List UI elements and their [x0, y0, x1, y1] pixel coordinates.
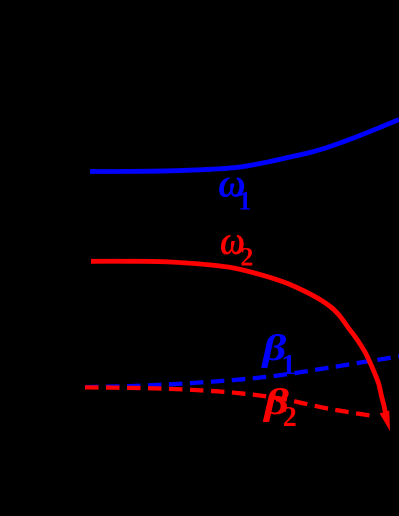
- svg-text:1: 1: [281, 349, 296, 381]
- svg-text:2: 2: [240, 242, 253, 271]
- curve omega2 (red solid lower frequency branch): [91, 261, 385, 412]
- svg-text:2: 2: [283, 402, 297, 433]
- label beta2: [262, 382, 289, 423]
- label omega2: [220, 218, 245, 264]
- arrowhead on omega2: [380, 411, 390, 432]
- svg-text:1: 1: [238, 186, 251, 215]
- curve beta1 (blue dashed damping branch): [85, 357, 399, 388]
- curve beta2 (red dashed damping branch): [85, 387, 373, 415]
- curve omega1 (blue solid upper frequency branch): [90, 120, 399, 172]
- label beta1: [260, 328, 287, 369]
- label omega1: [218, 160, 245, 206]
